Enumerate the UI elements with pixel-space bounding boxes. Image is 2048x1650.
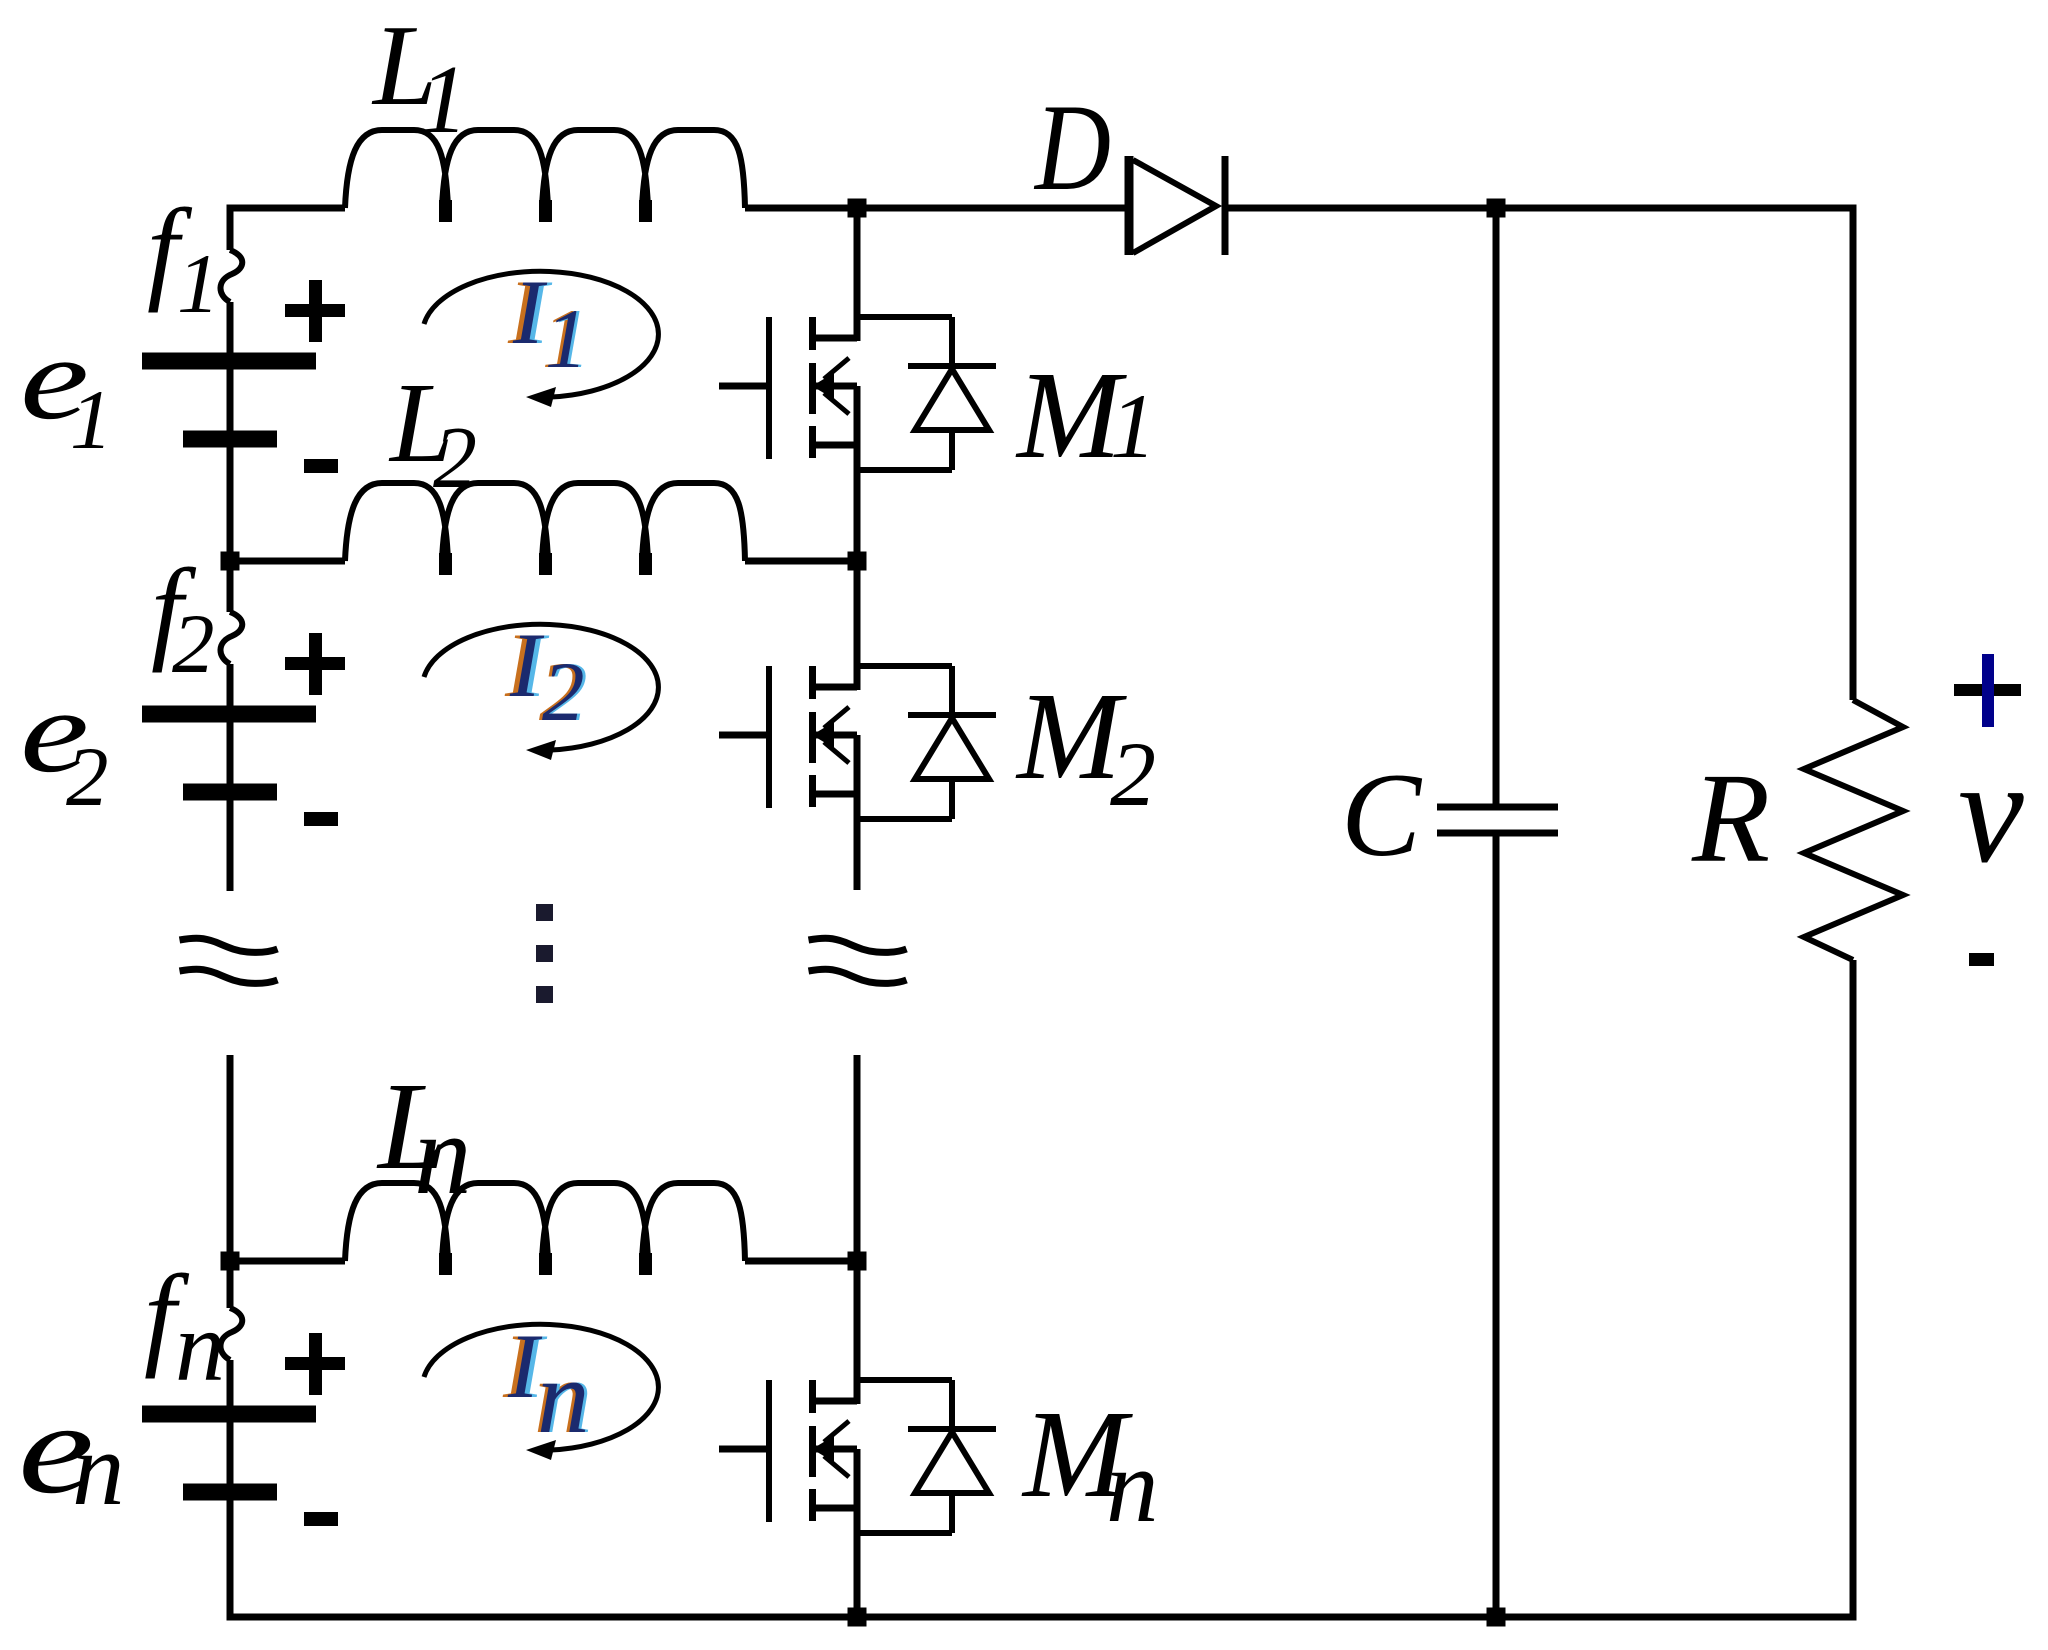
svg-text:1: 1 xyxy=(177,237,220,331)
svg-text:n: n xyxy=(72,1410,125,1527)
svg-text:n: n xyxy=(537,1338,590,1455)
svg-text:1: 1 xyxy=(419,46,468,154)
svg-text:n: n xyxy=(414,1091,472,1218)
svg-text:v: v xyxy=(1958,730,2024,894)
svg-text:2: 2 xyxy=(172,597,215,691)
svg-text:n: n xyxy=(175,1291,225,1402)
svg-text:2: 2 xyxy=(542,645,585,739)
svg-text:1: 1 xyxy=(1110,375,1156,477)
svg-text:1: 1 xyxy=(545,292,588,386)
svg-text:2: 2 xyxy=(433,410,477,507)
svg-text:1: 1 xyxy=(70,373,113,467)
svg-text:D: D xyxy=(1033,79,1111,216)
svg-text:2: 2 xyxy=(66,730,109,824)
svg-text:2: 2 xyxy=(1110,723,1156,825)
svg-text:C: C xyxy=(1341,748,1423,881)
svg-text:n: n xyxy=(1106,1427,1159,1544)
svg-text:R: R xyxy=(1691,747,1770,889)
